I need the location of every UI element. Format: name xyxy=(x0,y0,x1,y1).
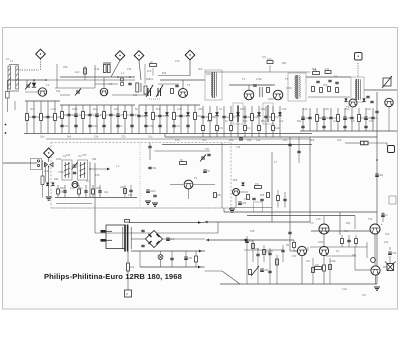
svg-text:470: 470 xyxy=(82,153,87,157)
FM tuner coil box L3 xyxy=(62,160,72,180)
wire into audio cluster xyxy=(240,239,250,241)
wire FM vertical xyxy=(89,162,91,198)
wire y271 stub xyxy=(205,270,223,272)
AGC line across IF strip xyxy=(205,71,310,73)
svg-text:39k: 39k xyxy=(54,177,59,181)
wire left column x42 xyxy=(42,160,44,176)
electrolytic C104 xyxy=(146,190,156,193)
svg-text:100n: 100n xyxy=(56,157,62,161)
transistor T6 (AC126 AF preamp) xyxy=(349,99,357,107)
IF transformer S8a (interstage, vertical) xyxy=(263,103,273,124)
wire into C115 xyxy=(345,142,360,144)
wire T5 out xyxy=(286,87,292,89)
resistor R48 xyxy=(328,87,331,92)
capacitor C91 xyxy=(73,172,76,173)
svg-text:0,1: 0,1 xyxy=(336,249,340,253)
wire FM drop x131 xyxy=(130,185,132,198)
wire switch to rail xyxy=(6,98,8,101)
long wire AF link xyxy=(206,239,294,241)
resistor R81 xyxy=(127,263,135,271)
wire stage5 drop 8 xyxy=(351,108,353,131)
electrolytic C80 xyxy=(301,117,310,120)
svg-text:100n: 100n xyxy=(150,190,156,193)
wire stage5 drop 6 xyxy=(337,108,339,131)
wire audio drop x258 xyxy=(257,248,259,284)
lead of M4 xyxy=(189,60,191,76)
wire audio mid drop 3 xyxy=(355,235,357,247)
svg-text:2,2k: 2,2k xyxy=(70,186,76,190)
wire into T12 base xyxy=(294,250,297,252)
wire stage4 signal rail xyxy=(229,84,275,86)
dotted divider inside FM box xyxy=(139,143,141,209)
FM aerial coil L2 xyxy=(103,63,111,73)
capacitor C17 xyxy=(109,114,116,117)
capacitor C53 xyxy=(222,116,229,119)
dial lamp LA1 xyxy=(158,255,163,260)
svg-text:0,5: 0,5 xyxy=(362,293,366,297)
arrowhead supply mid xyxy=(199,250,202,253)
svg-text:10n: 10n xyxy=(345,107,350,111)
wire audio drop x277 xyxy=(276,255,278,284)
resistor R19 xyxy=(124,112,131,119)
wire supply to T10 xyxy=(323,216,325,225)
dashed elbow M1 xyxy=(40,66,42,70)
electrolytic C25 xyxy=(95,114,104,117)
volume potentiometer arrow xyxy=(251,266,259,276)
wire audio mid drop 1 xyxy=(341,235,343,247)
svg-text:22k: 22k xyxy=(120,185,125,189)
svg-text:220: 220 xyxy=(198,107,203,111)
resistor R1 xyxy=(26,114,34,121)
FM dipole feed wire xyxy=(3,162,37,164)
wire drop x172 xyxy=(171,251,173,267)
svg-text:270p: 270p xyxy=(58,170,64,174)
wire stage4 drop 10 xyxy=(265,106,267,137)
electrolytic C118 xyxy=(238,202,247,205)
wire drop x313 xyxy=(312,258,314,284)
svg-text:470: 470 xyxy=(205,148,210,151)
svg-text:270p: 270p xyxy=(330,259,336,263)
wire supply rails link xyxy=(139,251,141,267)
capacitor C123 xyxy=(170,258,173,259)
wire stage3 drop 7 xyxy=(180,105,182,134)
svg-text:220: 220 xyxy=(206,72,211,76)
lamp lead top xyxy=(160,251,162,255)
test point diamond M3 xyxy=(134,51,144,61)
long wire drop x272 xyxy=(271,152,273,222)
resistor R40 xyxy=(272,114,279,121)
svg-text:470: 470 xyxy=(175,138,180,142)
long wire supply to IF xyxy=(205,221,311,223)
electrolytic C86 xyxy=(343,117,351,120)
capacitor C98 xyxy=(84,191,87,192)
svg-text:82p: 82p xyxy=(93,107,98,111)
svg-text:220: 220 xyxy=(337,138,342,142)
ratio detector transformer S9 xyxy=(351,77,364,102)
svg-text:T11: T11 xyxy=(368,217,373,221)
wire audio drop x253 xyxy=(252,240,254,262)
capacitor C121 xyxy=(141,245,144,246)
dashed wire M1 to antenna xyxy=(17,69,39,71)
svg-text:T3: T3 xyxy=(187,83,191,87)
main ground bus right part xyxy=(165,136,377,138)
svg-text:3n9: 3n9 xyxy=(197,115,202,118)
wire into T12 base xyxy=(290,250,297,252)
resistor R91 xyxy=(263,250,272,255)
wire T11 emitter to T14 collector xyxy=(374,234,376,265)
ground below C104 xyxy=(145,201,151,204)
svg-text:8,2k: 8,2k xyxy=(267,58,272,61)
test point diamond M2 xyxy=(115,51,125,61)
smoothing electrolytic C122 xyxy=(166,238,175,241)
electrolytic C116 xyxy=(375,174,384,177)
supply rail top xyxy=(129,222,205,224)
capacitor C120 xyxy=(141,230,144,231)
capacitor C102 xyxy=(207,154,210,155)
svg-text:0,5: 0,5 xyxy=(351,119,355,123)
resistor R39a xyxy=(267,58,273,64)
wire drop x278 xyxy=(277,190,279,208)
capacitor C26 lower xyxy=(74,125,77,126)
resistor R86 xyxy=(323,265,326,271)
wire stage1 drop 2 xyxy=(33,101,35,134)
wire x367 xyxy=(366,242,368,258)
audio rail y231 xyxy=(311,230,370,232)
svg-text:2,2k: 2,2k xyxy=(268,249,274,253)
wire FM drop 4 xyxy=(85,185,87,198)
resistor R95b xyxy=(329,265,332,270)
switch diode GR9 xyxy=(52,183,55,186)
electrolytic C130 xyxy=(388,252,397,255)
wire drop C100 xyxy=(149,143,151,161)
supply rail bottom xyxy=(140,266,205,268)
wire T9 emitter drop xyxy=(188,189,190,199)
antenna input terminal box xyxy=(31,159,42,170)
wire stage1-2 link y88 xyxy=(55,87,95,89)
wire stage5 signal rail xyxy=(306,76,351,78)
wire stage2 lower rail xyxy=(60,104,135,106)
svg-text:0,5: 0,5 xyxy=(310,221,314,225)
capacitor C30 lower xyxy=(102,125,105,126)
capacitor C151 xyxy=(347,240,350,241)
wire stage2 emitter xyxy=(60,94,70,96)
capacitor C71 xyxy=(308,117,311,118)
capacitor C105 xyxy=(153,195,156,196)
capacitor C51 lower xyxy=(186,125,189,126)
svg-text:100n: 100n xyxy=(268,97,274,101)
svg-text:6k8: 6k8 xyxy=(67,135,72,139)
wire stage5 rail y97 xyxy=(308,96,350,98)
wire supply drop x355 xyxy=(354,216,356,230)
transistor T14 (AC128 output) xyxy=(371,266,380,275)
resistor R24b xyxy=(171,89,174,94)
dashed lead of M1 xyxy=(40,59,42,66)
capacitor C86b xyxy=(328,80,331,81)
wire stage4 drop 1 xyxy=(202,106,204,137)
svg-text:3n9: 3n9 xyxy=(130,266,135,269)
resistor R75 xyxy=(247,195,250,200)
electrolytic C103 xyxy=(203,170,210,173)
wire stage4 drop 9 xyxy=(258,106,260,137)
resistor R5 xyxy=(54,114,62,121)
capacitor C86c xyxy=(335,82,338,83)
arrowhead FM out xyxy=(107,168,110,171)
wire stage4 drop 3 xyxy=(216,106,218,137)
wire AF link down2 xyxy=(293,248,295,251)
wire FM drop 2 xyxy=(64,185,66,198)
capacitor C87 lower xyxy=(322,126,325,127)
lead of M3 xyxy=(139,61,141,81)
wire stage5 drop 4 xyxy=(323,108,325,131)
svg-text:68p: 68p xyxy=(261,119,266,123)
wire audio drop x264 xyxy=(263,245,265,262)
capacitor C56 xyxy=(243,116,252,119)
wire T7 emitter down xyxy=(388,107,390,132)
polarized capacitor C44 xyxy=(165,112,169,116)
capacitor C101 xyxy=(148,167,157,170)
oscillator coil L6 xyxy=(136,83,141,92)
capacitor C113 xyxy=(297,151,300,152)
IF transformer S7a (interstage, vertical) xyxy=(233,103,243,124)
wire stage3 drop 9 xyxy=(194,105,196,134)
wire drop x285 xyxy=(284,192,286,208)
wire audio mid drop 2 xyxy=(348,235,350,247)
wire T10 to T13 xyxy=(323,234,325,246)
electrolytic C89 xyxy=(364,117,373,120)
polarized capacitor C62 xyxy=(215,112,219,116)
svg-text:2n2: 2n2 xyxy=(279,119,284,123)
ratio detector transformer S9 primary coil xyxy=(354,80,357,100)
svg-text:2n2: 2n2 xyxy=(30,107,35,111)
svg-text:12k: 12k xyxy=(104,190,109,194)
capacitor C141 xyxy=(256,254,259,255)
wire x145 drop xyxy=(144,64,146,84)
wire stage4 drop 11 xyxy=(272,106,274,137)
audio supply rail y215 xyxy=(247,215,355,217)
wire stage1 drop 1 xyxy=(26,101,28,134)
wire stage3 lower rail xyxy=(139,104,200,106)
wire stage2 drop 5 xyxy=(89,105,91,134)
resistor R44 xyxy=(313,69,320,75)
wire stage3 drop 3 xyxy=(152,105,154,134)
transistor T1 (AF117 mixer) xyxy=(38,88,46,96)
loudspeaker LS1 xyxy=(385,262,396,271)
FM tuner coil box L4 xyxy=(78,160,88,180)
polarized capacitor C71 xyxy=(278,112,282,116)
wire R39a drop xyxy=(269,65,271,72)
resistor R37 xyxy=(251,114,260,121)
wire T3 base lead xyxy=(182,80,184,89)
alignment point square S1 xyxy=(355,53,363,61)
capacitor C111 xyxy=(288,232,291,233)
electrolytic C131 xyxy=(381,214,388,217)
svg-text:150: 150 xyxy=(250,229,255,233)
resistor R94 xyxy=(293,243,296,248)
resistor R36 lower xyxy=(216,126,224,131)
second ground bus y139 xyxy=(46,138,310,140)
svg-text:2n2: 2n2 xyxy=(283,138,288,142)
IF transformer S8 secondary coil xyxy=(298,76,301,98)
wire stage2 signal rail xyxy=(60,76,135,78)
capacitor C32 lower xyxy=(116,125,123,128)
wire stage5 drop 3 xyxy=(316,108,318,131)
svg-text:8,2k: 8,2k xyxy=(275,127,280,130)
capacitor C86a xyxy=(316,81,319,82)
svg-text:68p: 68p xyxy=(282,61,287,65)
wire switch drop xyxy=(6,80,8,92)
svg-text:3n9: 3n9 xyxy=(198,67,203,71)
svg-text:6k8: 6k8 xyxy=(312,67,317,71)
test point diamond M5 xyxy=(44,148,54,158)
capacitor C100 xyxy=(98,191,101,192)
resistor R38 lower xyxy=(230,126,233,131)
dashed FM box bottom emphasize xyxy=(52,207,230,209)
tuning gang capacitor C10a xyxy=(146,85,153,97)
resistor R71 xyxy=(214,193,222,198)
IF transformer S8 xyxy=(288,73,306,101)
wire FM IF top rail xyxy=(155,150,211,152)
T13 emitter drop xyxy=(323,256,325,284)
capacitor C64a xyxy=(253,85,256,86)
wire bridge output xyxy=(163,238,206,240)
capacitor C93 lower xyxy=(364,126,367,127)
capacitor C84 lower xyxy=(301,126,304,127)
wire T5a out xyxy=(240,191,248,193)
wire stage2 drop 9 xyxy=(117,105,119,134)
svg-text:2n2: 2n2 xyxy=(44,169,49,173)
electrolytic C144 xyxy=(260,269,269,272)
svg-text:0,1: 0,1 xyxy=(6,57,10,61)
bus component pair xyxy=(239,138,243,140)
svg-text:12k: 12k xyxy=(369,119,374,123)
wire audio cluster rail xyxy=(244,249,283,251)
capacitor C45 lower xyxy=(144,125,154,128)
wire FM out xyxy=(90,168,108,170)
junction on x377 xyxy=(376,159,378,161)
capacitor C74 xyxy=(329,117,338,120)
resistor R93 xyxy=(249,270,252,275)
transistor T4 (AF116 IF amp 2) xyxy=(244,90,254,100)
component box outline xyxy=(254,202,263,212)
svg-text:68p: 68p xyxy=(60,186,65,190)
bus step xyxy=(164,134,166,138)
wire stage5 drop 1 xyxy=(302,108,304,131)
wire y95 link xyxy=(112,94,148,96)
wire stage2 drop 3 xyxy=(75,105,77,134)
wire stage5 drop 9 xyxy=(358,108,360,131)
svg-text:15k: 15k xyxy=(244,197,249,201)
wire stage2 drop 11 xyxy=(131,105,133,134)
svg-text:Philips-Philitina-Euro 12RB 18: Philips-Philitina-Euro 12RB 180, 1968 xyxy=(44,272,182,281)
capacitor C100 xyxy=(148,146,151,147)
wire T2 base lead xyxy=(103,77,105,88)
coupling transformer bars xyxy=(260,87,262,97)
wire stage4 drop 8 xyxy=(251,106,253,137)
main ground bus upper xyxy=(24,133,312,135)
lamp lead bottom xyxy=(160,259,162,267)
transistor T9 (AF115 FM IF) xyxy=(184,180,193,189)
wire stage3 drop 4 xyxy=(159,105,161,134)
ratio detector diode GR2 xyxy=(344,98,347,101)
svg-text:22k: 22k xyxy=(255,247,260,251)
wire jack lead xyxy=(386,143,388,146)
wire stage3 drop 5 xyxy=(166,105,168,134)
svg-text:8,2k: 8,2k xyxy=(324,107,330,111)
wire stage1 drop 3 xyxy=(40,101,42,134)
wire stage2 drop 1 xyxy=(61,105,63,134)
wire step from FM box xyxy=(223,208,225,212)
vertical wire x218 xyxy=(217,222,219,233)
bus segment y144.5 xyxy=(162,144,312,146)
svg-text:2,2k: 2,2k xyxy=(177,107,183,111)
wire C130 bottom xyxy=(389,256,391,263)
transistor T5a (AC126 1st AF) xyxy=(233,189,240,196)
capacitor C146 xyxy=(268,271,271,272)
wire T9 collector out xyxy=(193,184,215,186)
wire stage2 drop 2 xyxy=(68,105,70,134)
wire stage4 drop 7 xyxy=(244,106,246,137)
IF transformer S7 xyxy=(205,70,222,100)
wire drop x196 xyxy=(195,251,197,267)
wire C115 to jack xyxy=(368,142,387,144)
horizontal wire y233 xyxy=(95,232,218,234)
ground at audio output xyxy=(374,287,380,290)
wire T14 base xyxy=(355,269,371,271)
transformer secondary winding xyxy=(130,227,133,249)
wire antenna to mixer base xyxy=(8,79,47,81)
switch diode GR8 xyxy=(46,183,49,186)
resistor R25 xyxy=(173,113,182,120)
capacitor C77 xyxy=(350,117,353,118)
wire to trimmer C2 xyxy=(26,80,28,84)
wire left rail stage2 xyxy=(94,65,96,88)
svg-text:220: 220 xyxy=(217,194,222,197)
svg-text:T10: T10 xyxy=(316,217,321,221)
transistor T7 (AC126) xyxy=(385,98,393,106)
resistor R95 xyxy=(315,264,322,270)
wire FM drop 6 xyxy=(99,185,101,198)
wire stage2 drop 10 xyxy=(124,105,126,134)
ganged link dashed xyxy=(149,98,160,100)
waveband switch contact xyxy=(6,92,10,99)
coupling electrolytic C115 xyxy=(361,141,369,145)
capacitor C142 xyxy=(268,253,271,254)
svg-text:39k: 39k xyxy=(92,157,97,161)
wire R24a drop xyxy=(152,68,154,76)
resistor R66 xyxy=(124,189,127,194)
wire AF link down xyxy=(293,240,295,243)
resistor R22 xyxy=(152,113,160,120)
arrowhead supply bottom xyxy=(198,266,201,269)
transistor T5 (AF116 IF amp 3) xyxy=(273,90,283,100)
wire T1 base xyxy=(25,91,39,93)
resistor R31 xyxy=(209,114,217,121)
polarized capacitor C65 xyxy=(236,112,240,116)
capacitor C87 xyxy=(366,96,369,97)
svg-text:12k: 12k xyxy=(95,67,100,71)
svg-text:150: 150 xyxy=(240,107,245,111)
capacitor C143 xyxy=(281,250,284,251)
wire drop x299 xyxy=(298,137,300,163)
wire to volume control xyxy=(364,89,397,91)
wire stage3 drop 2 xyxy=(145,105,147,134)
svg-text:3n9: 3n9 xyxy=(385,232,390,236)
svg-text:T11: T11 xyxy=(344,230,349,233)
IF transformer S7 primary coil xyxy=(210,73,213,97)
wire AF branch down x340 xyxy=(339,212,341,235)
diode GR1 xyxy=(32,83,36,87)
FM band coil L2a xyxy=(41,176,44,185)
